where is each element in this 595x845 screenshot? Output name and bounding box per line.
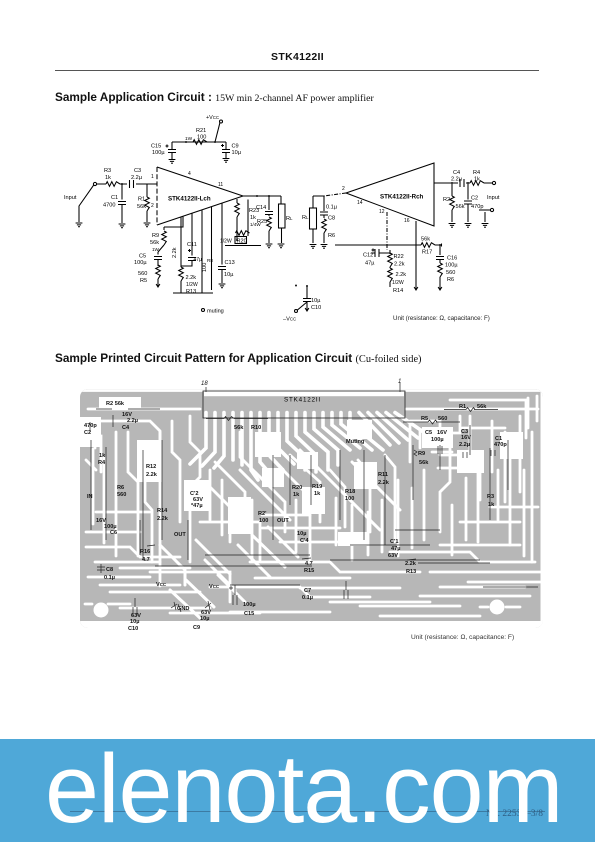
input terminal Lch	[64, 182, 97, 222]
svg-text:C'4: C'4	[300, 538, 309, 544]
svg-text:2.2µ: 2.2µ	[127, 418, 138, 424]
resistor R22	[388, 250, 405, 268]
pcb copper pattern	[80, 389, 543, 628]
ground (C9)	[223, 159, 230, 163]
svg-text:16V: 16V	[437, 430, 447, 436]
capacitor C4	[451, 170, 464, 187]
elenota.com watermark	[45, 733, 562, 845]
svg-text:STK4122II: STK4122II	[284, 397, 321, 404]
resistor R20	[220, 200, 261, 246]
svg-text:2.2k: 2.2k	[157, 516, 169, 522]
svg-text:10µ: 10µ	[130, 619, 139, 625]
svg-text:470p: 470p	[494, 442, 507, 448]
svg-text:2.2µ: 2.2µ	[459, 442, 470, 448]
svg-text:R2 56k: R2 56k	[106, 401, 125, 407]
wire pin12 Rch dash-dot	[386, 212, 388, 250]
svg-text:560: 560	[117, 492, 126, 498]
svg-text:2.2k: 2.2k	[405, 561, 417, 567]
svg-text:1k: 1k	[314, 491, 321, 497]
op-amp U1 Lch	[151, 167, 243, 225]
node +Vcc	[206, 115, 223, 142]
wire bottom Lch	[173, 292, 213, 294]
ground (R25)	[266, 244, 273, 248]
wire pin line	[211, 207, 213, 290]
svg-text:C9: C9	[193, 625, 200, 631]
footer page rule	[70, 811, 545, 812]
svg-text:R3: R3	[487, 494, 494, 500]
ground (C2)	[465, 224, 472, 228]
svg-text:56k: 56k	[234, 425, 244, 431]
svg-text:100µ: 100µ	[431, 437, 444, 443]
resistor R19	[438, 263, 456, 284]
muting terminal	[202, 309, 224, 315]
svg-text:18: 18	[201, 381, 208, 387]
capacitor C13	[218, 204, 235, 284]
resistor R26	[322, 219, 335, 243]
svg-text:C'1: C'1	[390, 539, 398, 545]
svg-text:10µ: 10µ	[200, 616, 209, 622]
svg-text:R6: R6	[117, 485, 124, 491]
svg-text:100: 100	[259, 518, 268, 524]
ground (aux)	[482, 224, 489, 228]
white patches	[80, 397, 523, 618]
svg-text:100: 100	[345, 496, 354, 502]
resistor R25	[257, 217, 271, 243]
op-amp U1 Rch	[342, 163, 434, 226]
wire dash-dot apex Rch	[324, 193, 346, 196]
note unit schematic	[393, 315, 490, 322]
arrow -Vcc (pin16)	[414, 284, 418, 290]
svg-text:OUT: OUT	[174, 532, 186, 538]
svg-text:R12: R12	[146, 464, 156, 470]
pcb component labels	[84, 401, 507, 632]
ground (C13)	[219, 284, 226, 288]
resistor R3	[104, 168, 120, 186]
arrow (R19)	[438, 284, 442, 290]
resistor R13	[172, 217, 198, 295]
svg-text:10µ: 10µ	[297, 531, 306, 537]
svg-text:C15: C15	[244, 611, 254, 617]
IC outline STK4122II	[203, 391, 405, 418]
svg-text:OUT: OUT	[277, 518, 289, 524]
resistor R9	[150, 227, 166, 252]
svg-text:R14: R14	[157, 508, 168, 514]
wire zobel Rch	[313, 196, 324, 211]
ground (R26)	[321, 245, 328, 249]
pin 18 label	[201, 381, 208, 387]
svg-text:R16: R16	[140, 549, 150, 555]
white routing channels	[80, 389, 543, 628]
input terminal Rch	[487, 181, 500, 201]
svg-text:C5: C5	[425, 430, 432, 436]
load RL Lch	[279, 196, 294, 243]
svg-text:R5: R5	[421, 416, 428, 422]
ground (input Lch)	[76, 223, 83, 227]
pin 1 label	[398, 379, 401, 385]
capacitor C14	[256, 196, 273, 216]
svg-text:C7: C7	[304, 588, 311, 594]
ground (RL Rch)	[310, 245, 317, 249]
svg-text:63V: 63V	[388, 553, 398, 559]
svg-text:2.2k: 2.2k	[378, 480, 390, 486]
svg-text:470p: 470p	[84, 423, 97, 429]
svg-text:100µ: 100µ	[243, 602, 256, 608]
arrow (C10)	[305, 305, 309, 311]
unit note under pcb	[411, 634, 514, 641]
svg-text:R1: R1	[459, 404, 466, 410]
wire input Rch	[434, 182, 492, 184]
footer banner	[0, 739, 595, 842]
-Vcc terminal	[283, 302, 307, 323]
svg-text:560: 560	[438, 416, 447, 422]
svg-text:C8: C8	[106, 567, 113, 573]
svg-text:1k: 1k	[99, 453, 106, 459]
resistor R14	[388, 267, 407, 294]
capacitor C9	[221, 142, 242, 158]
arrow -Vcc (R5)	[156, 281, 160, 287]
ground (R2)	[449, 224, 456, 228]
capacitor C10	[295, 285, 321, 312]
capacitor C3	[130, 168, 143, 188]
ground (R1)	[144, 223, 151, 227]
svg-text:R4: R4	[98, 460, 106, 466]
svg-text:56k: 56k	[477, 404, 487, 410]
svg-text:R19: R19	[312, 484, 322, 490]
header rule	[55, 70, 539, 71]
svg-text:R2': R2'	[258, 511, 267, 517]
svg-text:47µ: 47µ	[391, 546, 400, 552]
resistor R1	[137, 184, 149, 222]
ground (RL Lch)	[278, 244, 285, 248]
svg-text:*47µ: *47µ	[191, 503, 203, 509]
resistor R2	[443, 184, 465, 222]
svg-text:R20: R20	[292, 485, 302, 491]
capacitor C17	[320, 205, 338, 222]
resistor R4	[470, 170, 484, 185]
ground (C15)	[169, 160, 176, 164]
capacitor C12	[363, 249, 390, 267]
svg-text:C4: C4	[122, 425, 130, 431]
svg-text:Muting: Muting	[346, 439, 365, 445]
section heading 1	[55, 90, 374, 104]
pcb overlay wires	[90, 383, 538, 616]
wire bus bottom	[335, 221, 421, 284]
capacitor C11	[181, 214, 202, 267]
load RL Rch	[302, 196, 317, 243]
svg-text:1k: 1k	[488, 502, 495, 508]
section heading 2	[55, 351, 422, 365]
wire supply rail	[172, 141, 226, 143]
svg-text:C10: C10	[128, 626, 138, 632]
wire input Lch	[97, 183, 157, 185]
resistor R17 muting	[421, 237, 442, 256]
capacitor C2	[464, 184, 483, 222]
svg-text:R10: R10	[251, 425, 261, 431]
svg-text:R18: R18	[345, 489, 355, 495]
svg-text:R9: R9	[418, 451, 425, 457]
svg-text:IN: IN	[87, 494, 93, 500]
resistor R5	[138, 265, 160, 284]
svg-text:0.1µ: 0.1µ	[302, 595, 313, 601]
wire pin7 Lch	[164, 217, 183, 228]
resistor R8	[202, 210, 213, 293]
terminal aux Rch	[479, 208, 494, 222]
wire output Lch	[243, 195, 281, 197]
header title	[0, 51, 595, 63]
svg-text:R15: R15	[304, 568, 314, 574]
svg-text:56k: 56k	[419, 460, 429, 466]
footer page number	[486, 809, 543, 819]
capacitor C5	[134, 252, 162, 266]
capacitor C15	[151, 142, 176, 159]
svg-text:0.1µ: 0.1µ	[104, 575, 115, 581]
comb fingers white gaps below IC	[190, 413, 428, 481]
svg-text:C6: C6	[110, 530, 117, 536]
resistor R21	[185, 128, 207, 144]
svg-text:R13: R13	[406, 569, 416, 575]
capacitor C16	[436, 244, 458, 269]
svg-text:2.2k: 2.2k	[146, 472, 158, 478]
resistor R23	[235, 199, 262, 236]
ground (C1)	[119, 224, 126, 228]
svg-text:1k: 1k	[293, 492, 300, 498]
svg-text:R11: R11	[378, 472, 388, 478]
capacitor C1	[103, 184, 126, 223]
